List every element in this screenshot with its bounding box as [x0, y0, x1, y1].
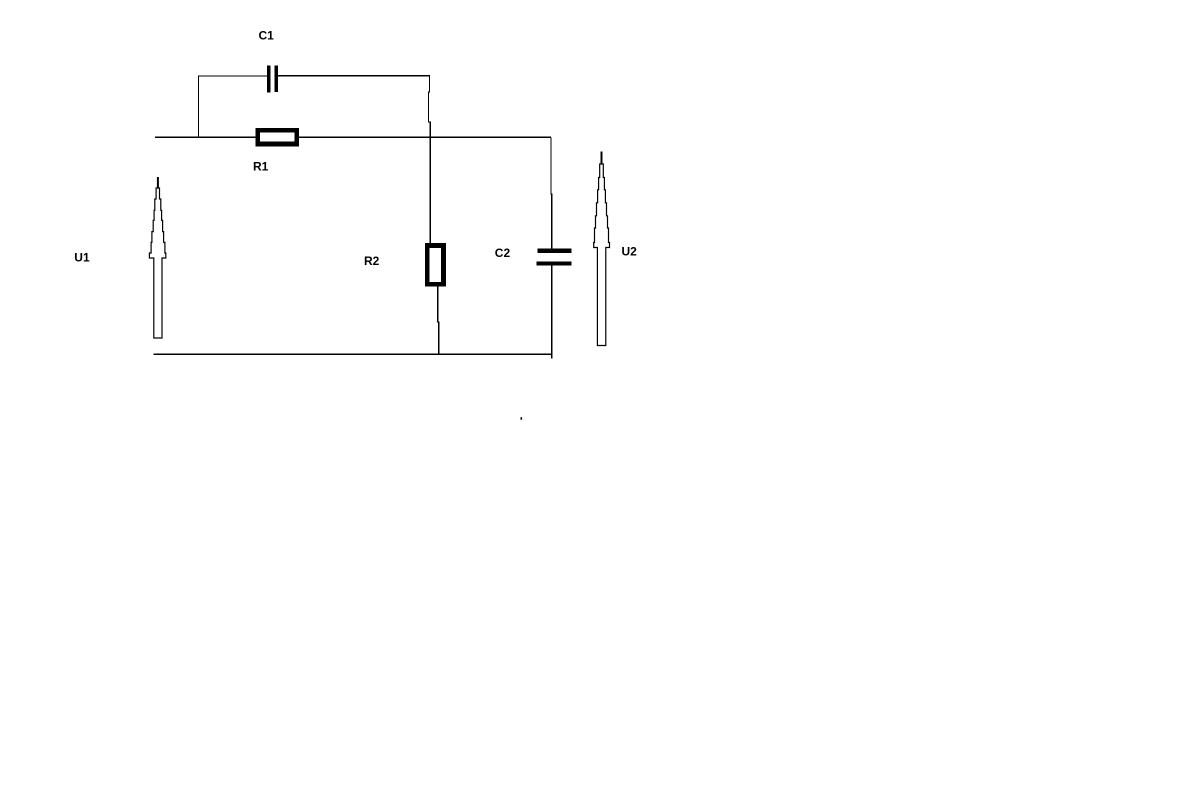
- svg-text:U1: U1: [74, 250, 90, 264]
- wire main horizontal: [155, 136, 551, 138]
- svg-text:C2: C2: [495, 246, 511, 260]
- svg-text:U2: U2: [622, 244, 638, 258]
- wire C1 to R2 vertical: [428, 76, 430, 244]
- svg-text:C1: C1: [259, 29, 275, 43]
- arrow U1: [149, 177, 165, 338]
- resistor R1: [258, 130, 297, 144]
- wire right vertical to C2: [550, 137, 553, 248]
- resistor R2: [427, 246, 443, 285]
- wire top branch right segment: [278, 75, 430, 77]
- wire C2 to bottom: [551, 265, 553, 358]
- svg-text:R1: R1: [253, 160, 269, 174]
- wire top branch left segment: [198, 75, 267, 77]
- capacitor C1: [267, 66, 278, 93]
- wire R2 to bottom: [437, 287, 440, 355]
- wire left branch vertical: [197, 76, 199, 138]
- arrow U2: [594, 152, 610, 346]
- capacitor C2: [536, 249, 571, 266]
- stray dot: [521, 417, 523, 420]
- wire bottom horizontal: [153, 353, 551, 355]
- svg-text:R2: R2: [364, 254, 380, 268]
